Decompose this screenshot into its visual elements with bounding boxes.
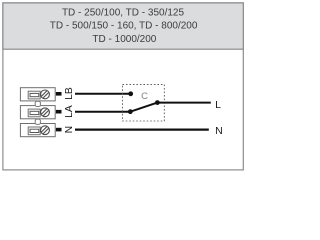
header box <box>3 3 243 49</box>
screw of TB1 <box>39 88 51 100</box>
screw of TB3 <box>39 124 51 136</box>
svg-text:TD - 250/100, TD - 350/125: TD - 250/100, TD - 350/125 <box>62 7 185 18</box>
svg-text:LB: LB <box>64 87 75 100</box>
wire LA <box>75 111 130 113</box>
wire stub of TB1 <box>56 92 62 96</box>
svg-text:TD - 1000/200: TD - 1000/200 <box>92 34 156 45</box>
svg-text:TD - 500/150 - 160, TD - 800/2: TD - 500/150 - 160, TD - 800/200 <box>50 21 198 32</box>
link between TB1 and TB2 <box>35 101 40 106</box>
svg-text:N: N <box>215 125 223 137</box>
switch pole node C <box>155 100 160 105</box>
switch contact node B (LA) <box>128 109 133 114</box>
wire L output <box>157 102 210 104</box>
screw of TB2 <box>39 106 51 118</box>
wire N <box>75 129 209 131</box>
wire stub of TB3 <box>56 128 62 132</box>
switch box (dashed) <box>122 84 164 121</box>
svg-text:LA: LA <box>64 105 75 118</box>
svg-text:L: L <box>215 99 221 111</box>
terminal block TB1 (LB) <box>20 88 55 101</box>
terminal block TB3 (N) <box>20 124 55 137</box>
switch lever <box>130 103 157 112</box>
outer frame <box>3 3 243 170</box>
switch contact node A (LB) <box>128 91 133 96</box>
wire LB <box>75 93 131 95</box>
link between TB2 and TB3 <box>35 119 40 124</box>
wire stub of TB2 <box>56 110 62 114</box>
svg-text:N: N <box>64 126 75 133</box>
svg-text:C: C <box>141 91 148 102</box>
terminal block TB2 (LA) <box>20 106 55 119</box>
